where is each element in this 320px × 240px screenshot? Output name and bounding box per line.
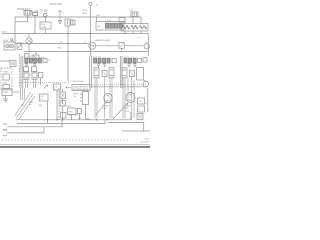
dotted note row <box>2 139 130 141</box>
svg-text:CORE: CORE <box>103 106 109 108</box>
wire Q22 e <box>109 78 111 119</box>
wire dashed boundary mid <box>58 88 60 120</box>
wire bus C <box>15 43 89 45</box>
wire D13 down <box>40 78 42 85</box>
wire R1 top <box>108 123 144 132</box>
wire RY21 down <box>104 77 106 119</box>
thermistor TH1 <box>131 12 138 17</box>
switch block SW2 <box>60 92 66 99</box>
pin stub u21 2 <box>80 97 83 99</box>
wire R1 bottom <box>122 130 150 132</box>
svg-text:TH SW: TH SW <box>40 11 48 13</box>
wire U21 down <box>85 105 87 120</box>
cluster L rail b <box>22 56 24 88</box>
diode D1 <box>59 21 62 24</box>
wire N3 down <box>71 115 73 120</box>
wire stub heater b <box>132 17 134 24</box>
pin stub u21 1 <box>80 93 83 95</box>
control unit dashed box <box>1 68 12 90</box>
bottom rule light <box>0 144 150 146</box>
dashed pin row L <box>20 81 70 83</box>
svg-text:FER: FER <box>125 108 130 110</box>
connector row CN11 pin4 <box>38 58 41 63</box>
dashed pin row B <box>121 83 147 85</box>
wire stub TS <box>44 17 46 22</box>
junction dot b <box>56 119 57 120</box>
junction dot e <box>106 119 107 120</box>
svg-text:(1): (1) <box>145 42 148 44</box>
diode block D11 <box>24 67 29 72</box>
speaker SP1 <box>25 54 30 59</box>
varistor Z1 <box>59 11 61 17</box>
svg-text:LVPS: LVPS <box>82 10 88 12</box>
small box bottom left <box>61 113 67 119</box>
contact a <box>6 44 10 48</box>
cluster B rail a <box>119 56 121 88</box>
wire Q21 e <box>94 78 96 119</box>
pin 2 <box>110 23 113 28</box>
wire bus A (AC line) <box>15 17 141 44</box>
node indicator <box>11 39 13 41</box>
ground <box>5 96 7 100</box>
connector row CN11 pin2 <box>29 58 32 63</box>
junction bus B x90 <box>90 33 91 34</box>
cluster L rail a <box>20 56 22 88</box>
connector CN31 tag <box>143 58 147 62</box>
svg-text:x3: x3 <box>138 37 140 39</box>
wire TH2 stub down <box>121 48 123 51</box>
resistor R heater 3 <box>140 26 147 29</box>
connector CN11 end <box>43 58 47 62</box>
note box N6 <box>138 106 145 112</box>
wire RY31 down <box>131 77 133 121</box>
connector row CN11 pin1 <box>25 58 28 63</box>
bottom rule dark <box>0 146 150 148</box>
svg-text:PWR: PWR <box>41 27 47 29</box>
connector hook 2 <box>3 130 7 136</box>
wire TH2 right <box>124 45 144 47</box>
junction bus B x125 <box>124 33 125 34</box>
junction bus D x29 <box>28 51 29 52</box>
junction bus D x68 <box>67 51 68 52</box>
fan motor FM1 <box>26 38 32 44</box>
svg-text:CAUTION HIGH: CAUTION HIGH <box>73 85 88 88</box>
wire N1 down <box>56 90 58 120</box>
wire stub F1 <box>34 16 36 18</box>
arrow to ring B <box>113 103 128 119</box>
wire F1 down to bus B <box>34 17 36 34</box>
wire right edge vertical <box>147 34 149 57</box>
connector CN31 pin3 <box>133 58 136 63</box>
wire Q21 c <box>96 78 98 119</box>
IC U31 <box>137 68 144 81</box>
wire H1 <box>7 120 62 127</box>
capacitor C32 <box>134 63 137 65</box>
connector CN21 pin2 <box>98 58 101 63</box>
harness L wire 1 <box>20 88 22 100</box>
junction dot d <box>96 119 97 120</box>
buzzer BZ1 <box>33 55 39 61</box>
note box N2 <box>40 94 49 101</box>
svg-text:VOLTAGE AREA: VOLTAGE AREA <box>73 88 89 91</box>
IC U21 <box>83 92 89 105</box>
junction bus B x35 <box>34 33 35 34</box>
interlock switch box S1 <box>4 42 15 50</box>
harness diag 3 <box>19 96 36 120</box>
wire dashed boundary <box>19 54 21 88</box>
arrow to N1b <box>66 87 72 89</box>
wire net down from bus A <box>89 17 91 56</box>
wire bus D <box>24 51 148 53</box>
fuse F1 <box>33 13 38 16</box>
wire Q22 c <box>111 78 113 119</box>
svg-text:CORE: CORE <box>125 106 131 108</box>
svg-text:MAIN UNIT: MAIN UNIT <box>50 3 63 6</box>
wire N4 down <box>79 114 81 120</box>
wire heater to bus B c <box>140 31 142 34</box>
wire bus A end down <box>140 17 142 24</box>
note box N5 <box>138 98 145 104</box>
ferrite core ring B <box>126 93 135 103</box>
arrow to ring A <box>96 102 107 116</box>
junction bus B x68 <box>67 33 68 34</box>
heater block H1 <box>121 24 148 32</box>
wire stub heater a <box>124 17 126 24</box>
junction dot c <box>62 119 63 120</box>
ferrite core ring A <box>104 93 112 103</box>
svg-text:x1: x1 <box>145 103 147 105</box>
diode D21 <box>60 101 66 107</box>
svg-text:HEATER LAMP: HEATER LAMP <box>95 39 111 42</box>
wire U31 down b <box>133 80 135 118</box>
cluster A rail b <box>91 56 93 88</box>
small box N4 <box>78 109 82 114</box>
wire L31 stub <box>144 80 146 81</box>
lamp L31 <box>143 81 149 87</box>
wire Q12 c <box>35 79 37 88</box>
wire M1 to TH2 <box>96 45 119 47</box>
wire long vertical net V1 <box>67 34 69 82</box>
pin 3 <box>115 23 118 28</box>
wire Q31 e <box>122 78 124 119</box>
lamp L1 <box>144 44 149 49</box>
harness diag 2 <box>17 94 34 118</box>
capacitor C2 <box>71 20 75 25</box>
connector CN21 pin4 <box>107 58 110 63</box>
wire L1b join <box>47 120 49 124</box>
sub board B1 <box>3 74 10 80</box>
cluster A rail a <box>89 56 91 88</box>
wire SW2 up <box>62 89 64 93</box>
transistor Q31 <box>122 68 127 78</box>
contact b <box>10 44 14 48</box>
svg-text:GND: GND <box>57 48 62 50</box>
arrow marker <box>44 85 48 89</box>
svg-text:UNIT: UNIT <box>82 13 88 15</box>
connector CN2 <box>119 18 125 23</box>
connector CN31 end <box>138 58 142 62</box>
cluster B rail b <box>121 56 123 88</box>
capacitor C12 <box>33 63 36 65</box>
wire bottom net L1b <box>17 120 105 124</box>
svg-text:W-16: W-16 <box>145 138 150 140</box>
wire stub NF1 to bus <box>27 15 29 17</box>
wire cluster B bottom <box>122 86 147 88</box>
switch S2 <box>17 43 22 49</box>
transistor Q21 <box>94 68 99 78</box>
wire FM1 bottom <box>28 44 30 51</box>
dashed pin row A <box>92 83 126 85</box>
relay RY21 <box>102 70 107 76</box>
capacitor C1 <box>65 19 70 26</box>
wire BZ1 stub <box>35 52 37 56</box>
motor M1 <box>89 42 96 49</box>
svg-text:AWG: AWG <box>29 101 34 104</box>
svg-text:CN1: CN1 <box>96 15 101 17</box>
fan box FM2 <box>137 114 143 120</box>
svg-text:CN: CN <box>48 60 52 62</box>
svg-text:PWB: PWB <box>3 92 8 94</box>
connector CN31 pin2 <box>129 58 132 63</box>
note box N1 <box>54 84 61 90</box>
transistor Q11 <box>24 72 29 79</box>
svg-text:FER: FER <box>103 108 108 110</box>
wire N2 down <box>47 101 49 120</box>
capacitor C22 <box>103 63 106 65</box>
svg-text:7 CAUTION AC: 7 CAUTION AC <box>70 80 84 83</box>
svg-text:AC CORD: AC CORD <box>69 114 79 117</box>
capacitor C21 <box>97 63 100 65</box>
wire antenna lead <box>89 5 91 17</box>
thermostat TH2 <box>119 42 124 48</box>
wire RY1 to bus B <box>44 29 46 34</box>
wire heater to bus B a <box>124 31 126 34</box>
harness L wire 3 <box>24 88 26 100</box>
connector CN21 pin3 <box>103 58 106 63</box>
svg-text:Schematic: Schematic <box>140 141 149 144</box>
wire right vertical <box>147 88 149 112</box>
connector J1 <box>10 61 16 67</box>
noise filter NF1 <box>24 11 31 16</box>
connector row CN11 pin3 <box>34 58 37 63</box>
wire bus B <box>2 33 148 35</box>
diode block D12 <box>32 67 37 72</box>
arrow on harness <box>22 104 24 106</box>
svg-text:ACN: ACN <box>2 30 7 33</box>
resistor R heater 2 <box>131 26 138 29</box>
note box N1b <box>72 85 90 91</box>
resistor R heater 1 <box>123 26 130 29</box>
pin 1 <box>106 23 109 28</box>
junction dot a <box>47 119 48 120</box>
junction bus C x68 <box>67 43 68 44</box>
wire to J1 <box>0 60 10 62</box>
power box P1 <box>2 89 12 96</box>
wire U31 down <box>127 78 129 102</box>
svg-text:RITE: RITE <box>125 111 130 113</box>
harness L wire 2 <box>22 88 24 100</box>
diode D13 <box>39 72 43 77</box>
wire SW2 down <box>62 99 64 105</box>
svg-text:REG: REG <box>74 94 79 96</box>
wire Q12 e <box>32 79 34 88</box>
capacitor C31 <box>128 63 131 65</box>
wire FM1 top <box>28 34 30 38</box>
connector hook 1 <box>3 124 7 130</box>
wire Q31 c <box>124 78 126 119</box>
wire bus to CN101 <box>96 17 98 22</box>
connector CN31 pin1 <box>124 58 127 63</box>
wire H2 <box>7 127 44 133</box>
wire cluster A bottom <box>91 86 118 88</box>
wire Q11 c <box>27 79 29 88</box>
wire bottom net L1 <box>16 119 131 121</box>
thermostat TS <box>44 13 47 16</box>
wire neutral stub <box>15 21 28 23</box>
connector CN101 <box>96 22 124 31</box>
harness diag 1 <box>15 92 32 116</box>
note box N3 <box>68 108 77 115</box>
sub board B2 <box>3 85 10 89</box>
relay RY1 <box>40 22 51 29</box>
wire P1 to net <box>12 91 20 93</box>
transistor Q22 <box>109 68 114 78</box>
wire D21 down <box>62 106 64 120</box>
svg-text:CONT: CONT <box>3 72 9 74</box>
wire Q11 e <box>24 79 26 88</box>
relay RY31 <box>130 70 135 76</box>
transistor Q12 <box>32 72 37 79</box>
pin 4 <box>119 23 122 28</box>
wire heater to bus B b <box>132 31 134 34</box>
connector CN21 end <box>112 58 116 62</box>
wire node to bus B <box>67 26 69 34</box>
pin stub u21 3 <box>80 100 83 102</box>
capacitor C11 <box>25 63 28 65</box>
node antenna A <box>89 2 92 5</box>
wire neutral drop <box>27 17 29 22</box>
wire cluster B last leg <box>130 112 132 120</box>
connector CN21 pin1 <box>94 58 97 63</box>
